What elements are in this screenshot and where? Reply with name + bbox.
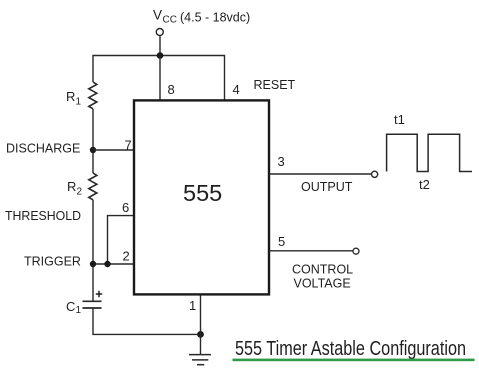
wire C1 to ground rail: [93, 308, 201, 334]
svg-text:CONTROL: CONTROL: [292, 263, 353, 277]
junction trigger dot A: [90, 261, 96, 267]
wire pin 5 control voltage: [269, 250, 353, 252]
svg-text:1: 1: [76, 97, 82, 108]
svg-text:DISCHARGE: DISCHARGE: [6, 142, 80, 156]
wire VCC stem: [159, 36, 161, 57]
wire R1 to trigger node: [92, 109, 94, 173]
svg-text:1: 1: [76, 305, 82, 316]
svg-text:OUTPUT: OUTPUT: [301, 180, 353, 194]
wire pin 3 output: [269, 173, 371, 175]
resistor R1: [89, 82, 97, 109]
node CONTROL VOLTAGE label: [292, 263, 353, 291]
svg-text:(4.5 - 18vdc): (4.5 - 18vdc): [180, 11, 250, 25]
svg-text:TRIGGER: TRIGGER: [24, 255, 81, 269]
svg-text:t2: t2: [419, 177, 430, 192]
svg-text:5: 5: [278, 234, 285, 249]
svg-text:R: R: [66, 89, 75, 104]
svg-text:8: 8: [168, 82, 175, 97]
wire pin 7: [93, 149, 136, 151]
svg-text:THRESHOLD: THRESHOLD: [5, 209, 81, 223]
svg-text:1: 1: [189, 298, 196, 313]
junction trigger dot B: [104, 261, 110, 267]
capacitor plus sign: [96, 291, 102, 297]
svg-text:6: 6: [122, 200, 129, 215]
svg-text:3: 3: [278, 154, 285, 169]
VCC terminal: [156, 29, 163, 36]
node VCC label: [153, 8, 250, 26]
capacitor C1: [83, 301, 102, 308]
junction discharge dot: [90, 147, 96, 153]
svg-text:555: 555: [183, 180, 222, 206]
wire pin 8 stem: [159, 56, 161, 102]
svg-text:C: C: [66, 299, 75, 314]
label R1: [66, 89, 82, 108]
svg-text:VOLTAGE: VOLTAGE: [294, 277, 351, 291]
caption underline: [233, 359, 475, 362]
wire R2 to C1: [92, 200, 94, 301]
svg-text:R: R: [67, 179, 76, 194]
svg-text:RESET: RESET: [254, 78, 296, 92]
label R2: [67, 179, 83, 198]
output terminal: [372, 171, 378, 177]
svg-text:2: 2: [77, 187, 83, 198]
svg-text:t1: t1: [394, 112, 405, 127]
label C1: [66, 299, 82, 316]
resistor R2: [89, 173, 97, 200]
junction ground dot: [197, 331, 204, 338]
svg-text:4: 4: [233, 82, 240, 97]
wire pin 6: [108, 216, 136, 264]
op IC 555 U1: [134, 100, 269, 294]
ground: [189, 355, 211, 365]
svg-text:2: 2: [123, 249, 130, 264]
wire pin 2: [93, 263, 136, 265]
svg-text:V: V: [153, 8, 162, 23]
wire pin 1 to ground: [200, 294, 202, 355]
svg-text:CC: CC: [163, 15, 177, 26]
control voltage terminal: [353, 248, 359, 254]
svg-text:7: 7: [125, 138, 132, 153]
wire VCC rail: [93, 56, 225, 102]
waveform t1 t2: [387, 134, 472, 171]
junction VCC rail dot: [157, 52, 164, 59]
svg-text:555 Timer Astable Configuratio: 555 Timer Astable Configuration: [235, 338, 466, 360]
